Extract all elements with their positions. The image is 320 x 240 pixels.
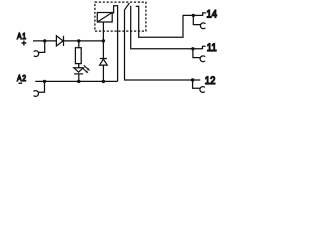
wire node to resistor	[78, 41, 80, 48]
relay module outline (dashed box)	[95, 2, 146, 31]
wire A2 bus	[35, 80, 117, 82]
plus sign	[22, 41, 27, 46]
svg-text:A2: A2	[17, 73, 27, 83]
svg-text:11: 11	[207, 42, 217, 54]
svg-text:14: 14	[206, 9, 217, 21]
diode D2 freewheel	[100, 59, 108, 66]
node A1 junction	[43, 39, 46, 42]
node LED branch	[77, 39, 80, 42]
relay contact COM line to terminal 11	[131, 6, 193, 49]
terminal 14	[192, 13, 206, 29]
wire node to D2	[102, 41, 104, 59]
node LED-bus junction	[77, 80, 80, 83]
wire D1 to coil node	[64, 40, 104, 42]
wire coil return lead to bus	[112, 6, 117, 82]
wire resistor to LED	[78, 64, 80, 68]
relay coil K1	[97, 13, 112, 23]
relay contact NC line to terminal 12	[125, 10, 193, 80]
terminal 11	[191, 46, 205, 61]
relay contact mover	[125, 3, 130, 10]
LED V1	[74, 65, 90, 74]
node coil branch	[102, 39, 105, 42]
wire A1 row	[33, 40, 56, 42]
minus sign	[19, 82, 23, 84]
terminal 12	[191, 78, 205, 92]
svg-text:12: 12	[205, 75, 216, 87]
node D2-bus junction	[102, 80, 105, 83]
svg-text:A1: A1	[17, 31, 27, 41]
wire coil bottom lead	[102, 22, 104, 41]
wire LED to bus	[78, 74, 80, 82]
terminal A1 socket	[34, 41, 45, 57]
wire D2 to bus	[102, 65, 104, 81]
node A2 junction	[43, 80, 46, 83]
relay contact NO line to terminal 14	[136, 6, 194, 37]
resistor R1	[75, 48, 81, 64]
diode D1	[56, 36, 63, 46]
terminal A2 socket	[34, 81, 45, 96]
